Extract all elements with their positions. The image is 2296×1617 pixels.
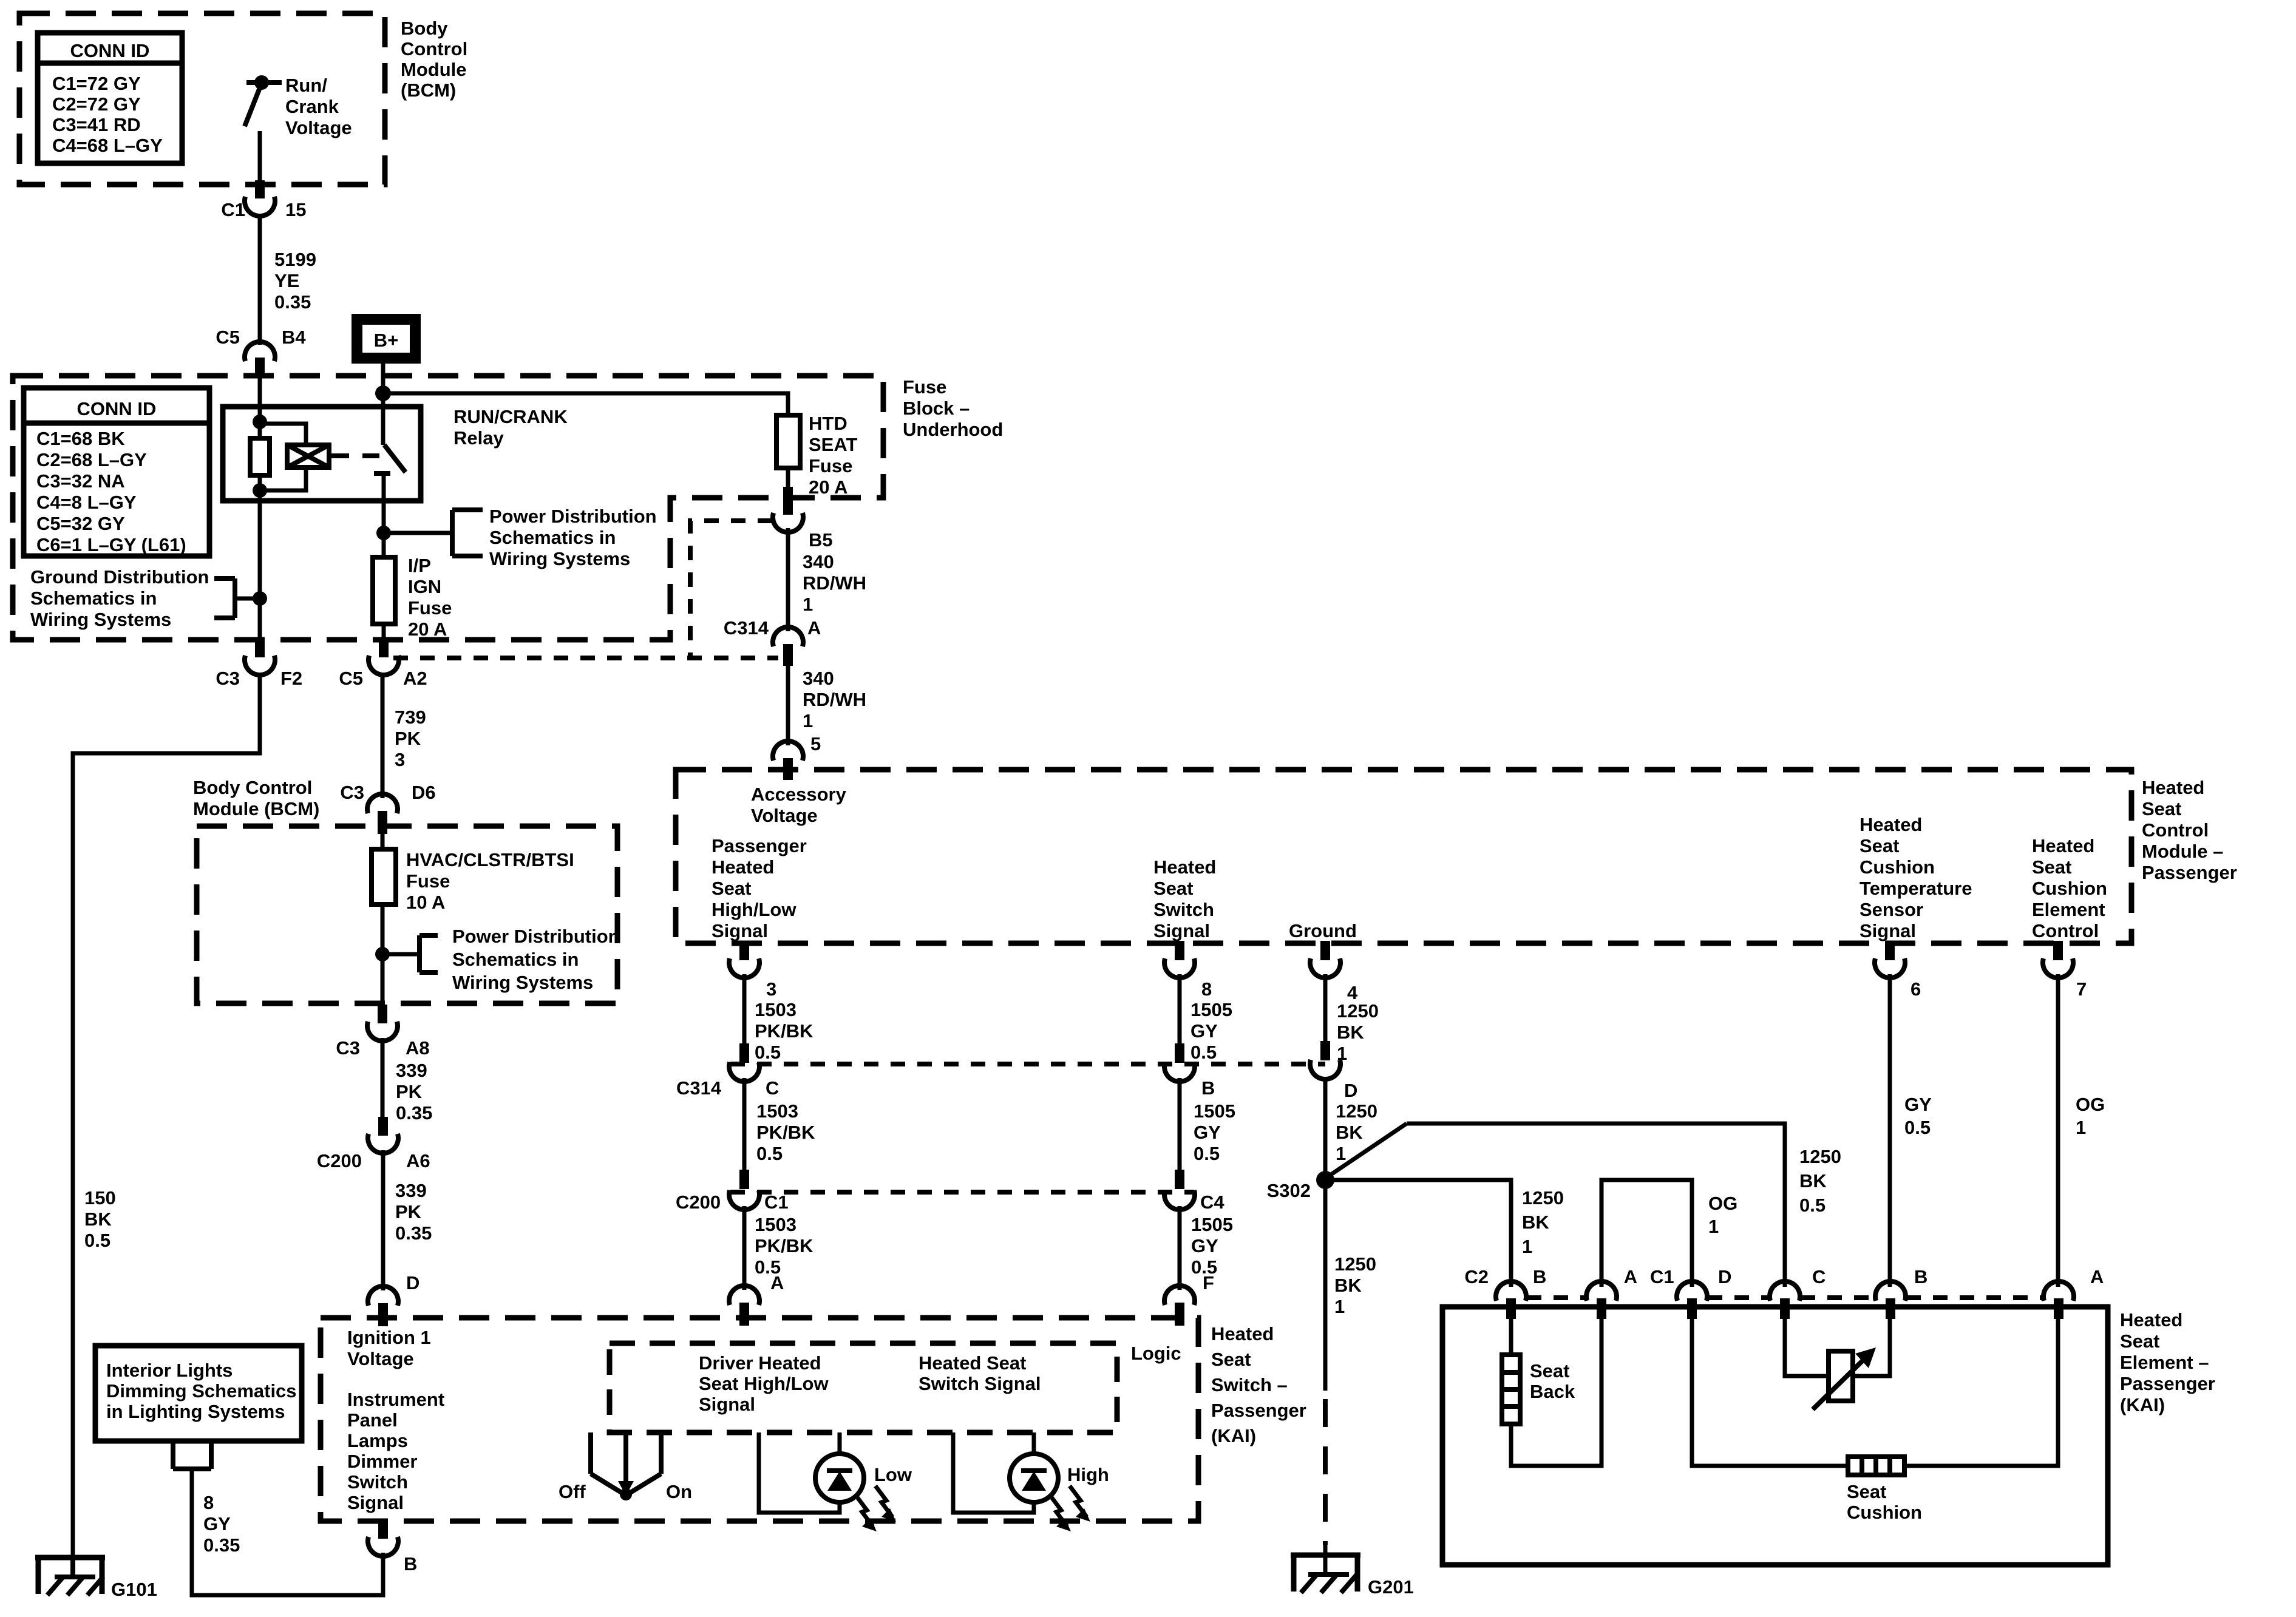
svg-text:Seat: Seat <box>2032 856 2071 878</box>
wire: GY 0.5 temp sensor signal <box>1888 974 1892 1287</box>
svg-text:RUN/CRANK: RUN/CRANK <box>453 406 568 427</box>
svg-text:I/P: I/P <box>408 555 431 576</box>
svg-text:Passenger: Passenger <box>2142 862 2237 883</box>
svg-text:Module (BCM): Module (BCM) <box>193 798 319 819</box>
inner box: Logic (dashed) <box>610 1343 1117 1432</box>
svg-text:GY: GY <box>1191 1235 1218 1256</box>
svg-text:Seat: Seat <box>2142 798 2181 819</box>
svg-text:0.35: 0.35 <box>274 291 311 313</box>
svg-text:Signal: Signal <box>1153 920 1210 941</box>
reference bracket: Ground Distribution <box>214 578 260 618</box>
svg-text:15: 15 <box>285 199 306 220</box>
svg-text:Seat High/Low: Seat High/Low <box>699 1373 829 1394</box>
svg-text:BK: BK <box>1799 1170 1827 1192</box>
connector C2-A into element (dome+stub) <box>1586 1281 1617 1319</box>
svg-text:6: 6 <box>1911 978 1921 1000</box>
connector C3 pin A8 (stub+cup) <box>367 1005 398 1041</box>
wire: OG 1 element control <box>2056 974 2060 1287</box>
LED: High indicator <box>1010 1454 1058 1502</box>
svg-text:Cushion: Cushion <box>1847 1502 1922 1523</box>
connector C314 pin B (stub+cup) <box>1164 1043 1195 1082</box>
label: Driver Heated Seat High/Low Signal <box>699 1352 829 1415</box>
connector C200 pin C4 (stub+cup) <box>1164 1170 1195 1210</box>
label: Heated Seat Element - Passenger (KAI) <box>2120 1309 2215 1415</box>
wire: seat cushion element loop <box>1692 1314 1849 1466</box>
dashed link: coil to switch <box>331 453 379 458</box>
svg-text:Panel: Panel <box>347 1409 398 1431</box>
svg-text:(KAI): (KAI) <box>1211 1425 1256 1446</box>
value label: 1505 GY 0.5 seg2 <box>1194 1100 1235 1164</box>
wire: 1505 GY 0.5 seg3 <box>1178 1206 1182 1290</box>
svg-text:CONN ID: CONN ID <box>70 40 150 61</box>
connector C1-B into element (dome+stub) <box>1875 1281 1906 1319</box>
reference bracket: interior lights output <box>173 1441 211 1469</box>
wire: 5199 YE 0.35 <box>258 214 262 345</box>
svg-text:F2: F2 <box>280 668 302 689</box>
fuse: HVAC/CLSTR/BTSI Fuse 10 A <box>372 849 396 904</box>
svg-text:C6=1 L–GY (L61): C6=1 L–GY (L61) <box>36 534 186 555</box>
svg-text:0.5: 0.5 <box>84 1230 110 1251</box>
svg-text:Control: Control <box>2032 920 2099 941</box>
wire: 339 PK 0.35 lower <box>381 1150 385 1290</box>
value label: 1250 BK 1 (C2 B wire) <box>1522 1187 1564 1257</box>
svg-text:20 A: 20 A <box>809 476 847 498</box>
value label: 340 RD/WH 1 lower <box>803 668 866 731</box>
svg-text:C1=68 BK: C1=68 BK <box>36 428 125 449</box>
svg-text:1250: 1250 <box>1336 1100 1377 1122</box>
dotted connector line: element C1 body <box>1708 1295 2043 1300</box>
svg-text:C3: C3 <box>216 668 240 689</box>
svg-text:1: 1 <box>803 710 813 731</box>
heating element: Seat Cushion <box>1848 1457 1904 1475</box>
wire: S302 to G201 solid <box>1323 1180 1328 1391</box>
svg-text:1505: 1505 <box>1190 999 1232 1020</box>
svg-text:Heated: Heated <box>1211 1323 1274 1344</box>
svg-text:C4: C4 <box>1200 1192 1224 1213</box>
svg-text:1250: 1250 <box>1522 1187 1564 1209</box>
switch: Off/On selector contacts <box>591 1432 661 1474</box>
connector C314 pin D (stub+cup) <box>1310 1041 1340 1079</box>
svg-text:Wiring Systems: Wiring Systems <box>30 609 171 630</box>
svg-text:BK: BK <box>84 1209 112 1230</box>
label: HVAC/CLSTR/BTSI Fuse 10 A <box>406 849 574 913</box>
svg-text:Body: Body <box>401 18 448 39</box>
svg-text:PK/BK: PK/BK <box>755 1020 813 1042</box>
svg-text:Relay: Relay <box>453 427 504 449</box>
connector C200 pin A6 (stub+cup) <box>368 1117 398 1153</box>
value label: 1250 BK 0.5 <box>1799 1146 1841 1216</box>
svg-text:C5: C5 <box>216 327 240 348</box>
svg-text:1503: 1503 <box>756 1100 798 1122</box>
svg-text:339: 339 <box>395 1180 427 1201</box>
svg-text:(KAI): (KAI) <box>2120 1394 2165 1415</box>
switch: Off/On selector blades V <box>591 1474 661 1494</box>
label: HTD SEAT Fuse 20 A <box>809 413 857 498</box>
label: RUN/CRANK Relay <box>453 406 568 449</box>
svg-text:Underhood: Underhood <box>903 419 1003 440</box>
svg-text:Back: Back <box>1530 1381 1575 1402</box>
thermistor: seat cushion temperature sensor <box>1813 1347 1876 1409</box>
wire: seat back return loop <box>1511 1314 1601 1466</box>
svg-text:Instrument: Instrument <box>347 1389 444 1410</box>
svg-text:Dimming Schematics: Dimming Schematics <box>106 1380 297 1402</box>
svg-text:High: High <box>1067 1464 1109 1485</box>
wire: High indicator branch <box>953 1432 1034 1513</box>
svg-text:Signal: Signal <box>699 1394 755 1415</box>
module box: Heated Seat Element - Passenger (solid) <box>1442 1307 2108 1565</box>
wire: 150 BK 0.5 to G101 (with jog) <box>73 673 260 1560</box>
connector C314 pin C (stub+cup) <box>729 1043 759 1082</box>
connector pin 4 out of HSCM (stub+cup) <box>1310 941 1340 978</box>
svg-text:Switch: Switch <box>347 1471 408 1493</box>
resistor: relay internal resistor <box>250 438 270 475</box>
reference bracket: Power Distribution (fuse block) <box>384 510 483 556</box>
svg-text:Logic: Logic <box>1131 1343 1181 1364</box>
value label: 5199 YE 0.35 <box>274 249 316 313</box>
svg-text:Ignition 1: Ignition 1 <box>347 1327 431 1348</box>
svg-text:Element –: Element – <box>2120 1352 2209 1373</box>
wire: dimmer signal B to interior lights jog <box>192 1469 383 1595</box>
svg-text:1503: 1503 <box>755 999 796 1020</box>
value label: 1503 PK/BK 0.5 seg1 <box>755 999 813 1063</box>
svg-text:B: B <box>1533 1266 1546 1287</box>
svg-text:SEAT: SEAT <box>809 434 857 455</box>
svg-text:Heated: Heated <box>1860 814 1922 835</box>
svg-text:5199: 5199 <box>274 249 316 270</box>
svg-text:1505: 1505 <box>1191 1214 1233 1235</box>
svg-text:GY: GY <box>1194 1122 1221 1143</box>
value label: 1250 BK 1 seg1 <box>1337 1000 1379 1064</box>
svg-text:C3=41 RD: C3=41 RD <box>52 114 141 135</box>
wire: C5/B4 to relay <box>258 375 262 438</box>
connector C1-A into element (dome+stub) <box>2043 1281 2074 1319</box>
solid box: Interior Lights Dimming Schematics in Lighting Systems <box>95 1346 302 1441</box>
value label: 339 PK 0.35 lower <box>395 1180 432 1244</box>
label: Seat Cushion <box>1847 1481 1922 1523</box>
LED: Low indicator <box>815 1454 864 1502</box>
svg-text:A: A <box>2090 1266 2104 1287</box>
label: Heated Seat Cushion Element Control <box>2032 835 2107 941</box>
svg-text:(BCM): (BCM) <box>401 80 456 101</box>
svg-text:1250: 1250 <box>1799 1146 1841 1167</box>
wire: 739 PK 3 <box>381 673 385 798</box>
svg-text:A: A <box>807 617 821 639</box>
value label: 739 PK 3 <box>395 707 426 770</box>
module box: Body Control Module (BCM) lower dashed <box>197 826 617 1003</box>
fuse: HTD SEAT Fuse 20 A <box>776 415 800 468</box>
svg-text:Control: Control <box>2142 819 2209 841</box>
value label: 1503 PK/BK 0.5 seg2 <box>756 1100 815 1164</box>
label: Instrument Panel Lamps Dimmer Switch Signal <box>347 1389 444 1513</box>
label: Power Distribution Schematics in Wiring Systems <box>489 506 657 569</box>
svg-text:HVAC/CLSTR/BTSI: HVAC/CLSTR/BTSI <box>406 849 574 870</box>
svg-text:C4=8 L–GY: C4=8 L–GY <box>36 492 137 513</box>
svg-text:CONN ID: CONN ID <box>77 398 157 419</box>
relay box: RUN/CRANK Relay <box>223 407 421 501</box>
svg-text:Accessory: Accessory <box>751 784 847 805</box>
svg-text:Switch: Switch <box>1153 899 1214 920</box>
svg-text:BK: BK <box>1336 1122 1363 1143</box>
value label: 150 BK 0.5 <box>84 1187 116 1251</box>
svg-text:C5: C5 <box>339 668 363 689</box>
connector pin 6 out of HSCM (stub+cup) <box>1875 941 1905 978</box>
svg-text:PK/BK: PK/BK <box>755 1235 813 1256</box>
svg-text:Passenger: Passenger <box>712 835 807 856</box>
wire: thermistor left lead <box>1785 1314 1829 1376</box>
reference bracket: Power Distribution (BCM) <box>382 935 438 972</box>
svg-text:C1=72 GY: C1=72 GY <box>52 73 141 94</box>
junction: ground distribution dot <box>253 591 267 606</box>
wire: 1503 PK/BK 0.5 seg2 <box>742 1078 747 1171</box>
svg-text:Ground: Ground <box>1289 920 1357 941</box>
svg-text:Run/: Run/ <box>285 75 327 96</box>
wire: Low LED top lead <box>838 1432 842 1454</box>
svg-text:PK: PK <box>395 1201 422 1222</box>
svg-text:Schematics in: Schematics in <box>30 588 157 609</box>
junction: selector pivot dot <box>620 1488 632 1500</box>
switch: selector arrow <box>618 1432 634 1496</box>
svg-text:Dimmer: Dimmer <box>347 1451 417 1472</box>
label: Accessory Voltage <box>751 784 847 826</box>
svg-text:339: 339 <box>396 1060 427 1081</box>
svg-text:3: 3 <box>766 978 776 1000</box>
connector C5 pin B4 (dome+stub) <box>245 342 275 376</box>
connector B5 out of fuse block (stub+cup) <box>773 467 803 532</box>
svg-text:Off: Off <box>559 1481 586 1502</box>
svg-text:Control: Control <box>401 38 467 59</box>
node: run/crank switch pivot dot <box>254 75 269 90</box>
junction: BCM power distribution dot <box>375 947 390 961</box>
svg-text:Sensor: Sensor <box>1860 899 1923 920</box>
svg-text:RD/WH: RD/WH <box>803 572 866 594</box>
svg-text:150: 150 <box>84 1187 116 1209</box>
svg-text:D: D <box>1718 1266 1731 1287</box>
connector pin 8 out of HSCM (stub+cup) <box>1164 941 1195 978</box>
label: Body Control Module (BCM) <box>401 18 467 101</box>
svg-text:PK/BK: PK/BK <box>756 1122 815 1143</box>
svg-text:0.5: 0.5 <box>1190 1042 1217 1063</box>
wire: D6 to HVAC fuse <box>381 833 385 850</box>
svg-text:Block –: Block – <box>903 398 970 419</box>
value label: 340 RD/WH 1 upper <box>803 551 866 615</box>
svg-text:Body Control: Body Control <box>193 777 312 798</box>
svg-text:Seat: Seat <box>1530 1360 1569 1381</box>
label: Heated Seat Switch - Passenger (KAI) <box>1211 1323 1306 1446</box>
svg-text:Seat: Seat <box>1860 835 1899 856</box>
svg-text:Seat: Seat <box>2120 1331 2159 1352</box>
module box: Heated Seat Switch - Passenger (outer dashed) <box>321 1318 1198 1521</box>
svg-text:Crank: Crank <box>285 96 339 117</box>
svg-text:C: C <box>1812 1266 1826 1287</box>
svg-text:Module: Module <box>401 59 467 80</box>
svg-text:PK: PK <box>395 728 421 749</box>
wire: jumper element A to D (OG) <box>1601 1180 1692 1287</box>
svg-text:D: D <box>1344 1080 1357 1101</box>
value label: 8 GY 0.35 <box>203 1492 240 1556</box>
value label: 1503 PK/BK 0.5 seg3 <box>755 1214 813 1278</box>
wire: ground 4 to S302 <box>1323 1077 1328 1171</box>
svg-text:1250: 1250 <box>1337 1000 1379 1022</box>
connector pin 7 out of HSCM (stub+cup) <box>2043 941 2073 978</box>
svg-text:in Lighting Systems: in Lighting Systems <box>106 1401 285 1422</box>
svg-text:OG: OG <box>2076 1094 2105 1115</box>
svg-text:Module –: Module – <box>2142 841 2223 862</box>
connector A into heated seat switch (dome+stub) <box>729 1286 759 1326</box>
svg-text:Fuse: Fuse <box>406 870 450 892</box>
svg-text:Temperature: Temperature <box>1860 878 1972 899</box>
value label: GY 0.5 <box>1904 1094 1932 1138</box>
svg-text:0.5: 0.5 <box>1194 1143 1220 1164</box>
wire: seat cushion return <box>1904 1314 2058 1466</box>
wire: 1505 GY 0.5 seg2 <box>1178 1078 1182 1171</box>
switch: Run/Crank Voltage contact tick <box>246 80 282 85</box>
module box: Fuse Block - Underhood (L-shape dashed) <box>13 376 883 640</box>
svg-text:B4: B4 <box>282 327 306 348</box>
svg-text:Signal: Signal <box>347 1492 404 1513</box>
svg-text:20 A: 20 A <box>408 619 447 640</box>
label: I/P IGN Fuse 20 A <box>408 555 452 640</box>
svg-text:PK: PK <box>396 1081 423 1102</box>
wire: coil branch bottom <box>260 466 306 490</box>
wire: seat back element feed <box>1509 1314 1513 1356</box>
svg-text:C: C <box>766 1077 779 1099</box>
LED light arrows: Low <box>856 1486 896 1531</box>
wire: Low indicator branch <box>759 1432 840 1513</box>
svg-text:Switch Signal: Switch Signal <box>919 1373 1041 1394</box>
svg-text:1250: 1250 <box>1334 1253 1376 1275</box>
svg-text:C3=32 NA: C3=32 NA <box>36 470 125 492</box>
svg-text:10 A: 10 A <box>406 892 445 913</box>
svg-text:Heated Seat: Heated Seat <box>919 1352 1026 1374</box>
svg-text:Cushion: Cushion <box>1860 856 1935 878</box>
svg-text:Element: Element <box>2032 899 2105 920</box>
relay switch blade <box>384 445 406 472</box>
label: Run/Crank Voltage <box>285 75 352 138</box>
label: Passenger Heated Seat High/Low Signal <box>712 835 807 941</box>
svg-text:A2: A2 <box>403 668 427 689</box>
svg-text:8: 8 <box>203 1492 214 1513</box>
svg-text:GY: GY <box>1904 1094 1932 1115</box>
svg-text:1: 1 <box>1708 1216 1719 1237</box>
wire: 340 RD/WH 1 upper <box>786 528 790 631</box>
ground symbol: G101 <box>35 1555 105 1595</box>
heating element: Seat Back <box>1502 1355 1520 1424</box>
svg-text:B+: B+ <box>374 330 399 351</box>
label: Heated Seat Control Module - Passenger <box>2142 777 2237 883</box>
CONN ID table (BCM) <box>38 33 182 163</box>
svg-text:5: 5 <box>810 733 821 754</box>
svg-text:340: 340 <box>803 668 834 689</box>
svg-text:G101: G101 <box>111 1579 157 1600</box>
svg-text:BK: BK <box>1522 1212 1549 1233</box>
value label: 339 PK 0.35 upper <box>396 1060 432 1124</box>
svg-text:C2: C2 <box>1464 1266 1489 1287</box>
svg-text:High/Low: High/Low <box>712 899 796 920</box>
svg-text:C200: C200 <box>676 1192 721 1213</box>
dotted connector line: C200 row <box>730 1190 1194 1195</box>
svg-text:1: 1 <box>1336 1143 1346 1164</box>
wire: 339 PK 0.35 upper <box>381 1038 385 1119</box>
svg-text:Passenger: Passenger <box>2120 1373 2215 1394</box>
svg-text:1: 1 <box>1522 1236 1532 1257</box>
svg-text:Voltage: Voltage <box>285 117 352 138</box>
dotted connector line: element C2 body <box>1527 1295 1586 1300</box>
svg-text:0.5: 0.5 <box>755 1042 781 1063</box>
svg-text:IGN: IGN <box>408 576 441 597</box>
connector pin 3 out of HSCM (stub+cup) <box>729 941 759 978</box>
svg-text:C3: C3 <box>336 1037 360 1059</box>
svg-text:D6: D6 <box>412 782 436 803</box>
svg-text:1505: 1505 <box>1194 1100 1235 1122</box>
svg-text:340: 340 <box>803 551 834 572</box>
junction: splice S302 <box>1316 1171 1334 1189</box>
label: Ground Distribution Schematics in Wiring Systems <box>30 566 209 630</box>
junction: relay coil top dot <box>253 415 267 429</box>
svg-text:GY: GY <box>1190 1020 1218 1042</box>
label: Heated Seat Switch Signal (logic) <box>919 1352 1041 1394</box>
svg-text:C314: C314 <box>724 617 769 639</box>
svg-text:C2=68 L–GY: C2=68 L–GY <box>36 449 147 470</box>
module box: Heated Seat Control Module - Passenger (dashed) <box>676 770 2131 943</box>
value label: OG 1 (jumper) <box>1708 1193 1737 1237</box>
value label: 1505 GY 0.5 seg1 <box>1190 999 1232 1063</box>
svg-text:Wiring Systems: Wiring Systems <box>452 972 593 993</box>
svg-text:7: 7 <box>2076 978 2087 1000</box>
wire: coil branch top <box>260 424 306 446</box>
wire: 340 RD/WH 1 lower <box>786 666 790 745</box>
connector C1-D into element (dome+stub) <box>1677 1281 1707 1319</box>
ground symbol: G201 <box>1291 1553 1360 1593</box>
svg-text:Fuse: Fuse <box>809 455 852 476</box>
svg-text:C314: C314 <box>676 1077 722 1099</box>
svg-text:1: 1 <box>803 594 813 615</box>
svg-text:G201: G201 <box>1368 1576 1414 1598</box>
svg-text:GY: GY <box>203 1513 231 1534</box>
svg-text:C1: C1 <box>1650 1266 1674 1287</box>
svg-text:Ground Distribution: Ground Distribution <box>30 566 209 588</box>
wire: relay output to I/P IGN fuse <box>382 473 386 557</box>
svg-text:A6: A6 <box>406 1150 430 1171</box>
wire: B+ to HTD SEAT fuse <box>383 393 788 415</box>
svg-text:S302: S302 <box>1267 1180 1311 1201</box>
svg-text:RD/WH: RD/WH <box>803 689 866 710</box>
label: Interior Lights Dimming Schematics in Lighting Systems <box>106 1360 297 1422</box>
connector B out of heated seat switch (stub+cup) <box>368 1520 398 1556</box>
svg-text:1503: 1503 <box>755 1214 796 1235</box>
CONN ID table (fuse block) <box>24 388 209 556</box>
svg-text:1: 1 <box>2076 1117 2086 1138</box>
svg-text:C3: C3 <box>340 782 364 803</box>
value label: OG 1 (right) <box>2076 1094 2105 1138</box>
wire: relay left leg lower <box>258 475 262 641</box>
svg-text:Heated: Heated <box>1153 856 1216 878</box>
svg-text:Passenger: Passenger <box>1211 1400 1306 1421</box>
svg-text:A: A <box>1624 1266 1637 1287</box>
wire: S302 branch to element B(C2) <box>1325 1180 1511 1287</box>
svg-text:Schematics in: Schematics in <box>452 949 579 970</box>
connector C3 pin F2 (stub+cup) <box>245 637 275 675</box>
svg-text:Power Distribution: Power Distribution <box>489 506 657 527</box>
svg-text:8: 8 <box>1201 978 1212 1000</box>
svg-text:Switch –: Switch – <box>1211 1374 1288 1395</box>
svg-text:A8: A8 <box>406 1037 430 1059</box>
svg-text:Wiring Systems: Wiring Systems <box>489 548 630 569</box>
svg-text:C1: C1 <box>221 199 245 220</box>
relay switch lower contact tick <box>374 471 390 476</box>
switch blade <box>245 86 260 126</box>
svg-text:C1: C1 <box>764 1192 789 1213</box>
label: Fuse Block - Underhood <box>903 376 1003 440</box>
